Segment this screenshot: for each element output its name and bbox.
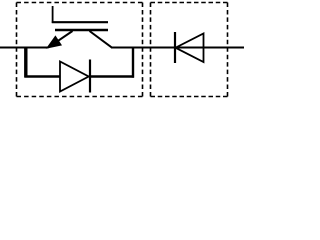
transistor Q1 body bar bbox=[55, 29, 108, 32]
left module dashed box left edge bbox=[16, 3, 18, 97]
diode D1 triangle bbox=[60, 62, 89, 92]
right module dashed box bottom edge bbox=[151, 96, 228, 98]
right module dashed box left edge bbox=[150, 3, 152, 97]
transistor Q1 gate lead bbox=[52, 6, 54, 23]
transistor Q1 gate bar bbox=[52, 21, 108, 23]
left module dashed box bottom edge bbox=[17, 96, 143, 98]
transistor Q1 emitter arrowhead bbox=[47, 36, 61, 48]
wire: left terminal to emitter junction bbox=[0, 47, 49, 49]
right module dashed box top edge bbox=[151, 2, 228, 4]
diode D2 cathode bar bbox=[174, 32, 176, 63]
wire: lower branch right vertical bbox=[132, 47, 134, 78]
diode D1 cathode bar bbox=[89, 60, 91, 93]
diode D2 triangle bbox=[176, 34, 204, 63]
right module dashed box right edge bbox=[227, 3, 229, 97]
wire: lower branch left vertical bbox=[24, 47, 27, 78]
wire: collector junction to right terminal bbox=[111, 47, 244, 49]
left module dashed box right edge bbox=[142, 3, 144, 97]
transistor Q1 emitter line bbox=[49, 31, 73, 47]
left module dashed box top edge bbox=[17, 2, 143, 4]
wire: lower branch bottom left segment bbox=[25, 75, 61, 77]
wire: lower branch bottom right segment bbox=[90, 75, 134, 77]
transistor Q1 collector line bbox=[90, 31, 112, 47]
